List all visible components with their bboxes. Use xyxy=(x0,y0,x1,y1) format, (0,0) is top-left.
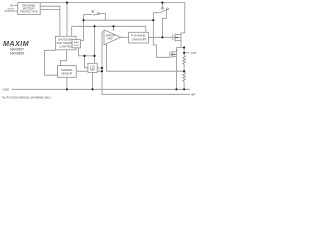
wire shutdown box to thermal box stair xyxy=(61,50,67,66)
wire reference left feed xyxy=(85,56,88,68)
op-amp U1 error amp xyxy=(104,30,121,45)
svg-text:ON/OFF: ON/OFF xyxy=(4,9,14,13)
svg-text:BIAS: BIAS xyxy=(74,41,80,44)
wire switch S2 blade feed xyxy=(153,12,160,14)
wire reference output xyxy=(97,67,102,69)
wire node A drop to shutdown box xyxy=(66,3,68,37)
box U2 reverse battery protection xyxy=(18,3,41,15)
svg-text:LOGIC: LOGIC xyxy=(73,45,80,47)
wire internal rail H4 xyxy=(84,19,154,21)
svg-text:PROTECTION: PROTECTION xyxy=(20,10,38,14)
label pin ON/OFF with overline xyxy=(4,9,14,13)
svg-text:SENSOR: SENSOR xyxy=(61,72,72,76)
box U6 bandgap reference xyxy=(88,63,97,72)
wire Q2 drain to OUT node xyxy=(176,48,178,52)
box U3 shutdown and thermal control xyxy=(55,36,76,50)
box U4 thermal sensor xyxy=(57,66,76,78)
svg-text:BP: BP xyxy=(192,93,196,97)
svg-text:THERMAL: THERMAL xyxy=(61,68,74,72)
transistor Q1 P-channel pass FET xyxy=(173,33,181,41)
wire IN pin stub xyxy=(14,4,18,6)
wire amp supply stub xyxy=(113,26,115,31)
wire feedback line xyxy=(107,32,185,71)
wire switch S2 top contact xyxy=(161,3,163,8)
box U7 bias block xyxy=(72,40,81,48)
wire OUT stub xyxy=(184,52,189,54)
svg-text:AMP: AMP xyxy=(107,38,113,41)
switch S2 (shutdown, gate to IN) xyxy=(160,7,169,12)
svg-text:DRIVER: DRIVER xyxy=(132,37,142,41)
wire IN rail top xyxy=(40,2,185,4)
wire GND rail xyxy=(12,88,191,90)
svg-text:P-CHANNEL: P-CHANNEL xyxy=(131,34,147,38)
wire N-FET source to ground xyxy=(176,57,178,90)
transistor Q2 auto-discharge N-FET xyxy=(170,48,177,59)
wire switch S1 entry xyxy=(84,14,93,16)
box U5 P-channel driver xyxy=(129,32,149,43)
wire shutdown box left loop xyxy=(45,50,58,75)
svg-text:SHUTDOWN: SHUTDOWN xyxy=(58,38,73,42)
wire switch S2 tip drop xyxy=(162,10,166,38)
junction dots xyxy=(66,1,185,90)
wire ON/OFF pin stub xyxy=(15,10,18,12)
wire thermal output to BP node xyxy=(76,70,102,72)
wire H5 to reference top xyxy=(94,26,96,63)
wire H5 to driver box xyxy=(145,26,147,32)
wire amp output to driver xyxy=(120,36,129,38)
wire internal rail H5 xyxy=(72,25,146,27)
svg-text:REF: REF xyxy=(90,68,96,72)
wire left bias vertical xyxy=(81,15,84,41)
wire P-FET drain to OUT node xyxy=(177,41,185,56)
resistor R1 feedback top xyxy=(183,55,186,71)
wire IN rail to P-FET source xyxy=(181,3,185,35)
svg-text:IN: IN xyxy=(10,4,13,8)
wire thermal box to ground xyxy=(66,77,68,89)
svg-text:*AUTO-DISCHARGE, MAX8868 ONLY: *AUTO-DISCHARGE, MAX8868 ONLY xyxy=(2,95,52,99)
svg-text:*: * xyxy=(176,48,178,53)
resistor R2 feedback bottom xyxy=(183,71,186,89)
svg-text:GND: GND xyxy=(3,88,11,92)
wire N-FET gate route xyxy=(153,13,170,58)
wire RBP output upper xyxy=(40,6,60,36)
svg-text:CONTROL: CONTROL xyxy=(59,45,72,49)
wire switch S1 exit xyxy=(99,13,105,20)
svg-text:OUT: OUT xyxy=(191,51,198,55)
wire reference ground xyxy=(92,72,94,89)
switch S1 (reference enable) xyxy=(92,11,99,16)
wire gate drive line xyxy=(148,36,172,38)
svg-text:MAX8868: MAX8868 xyxy=(10,52,24,56)
wire RBP output lower xyxy=(40,8,60,10)
wire bias to reference top xyxy=(79,48,95,56)
wire H5 to shutdown box xyxy=(71,26,73,36)
wire BP line xyxy=(102,31,190,94)
